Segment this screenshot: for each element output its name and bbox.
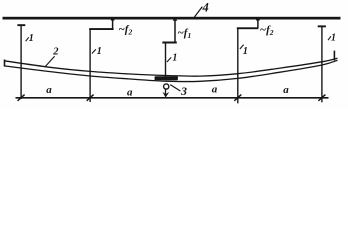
sag dimension tick f1 (center) [173, 19, 177, 42]
hanger 1 (left, T-clamp) [17, 24, 25, 99]
leader to label 2 [45, 56, 54, 66]
stem below ring [165, 89, 167, 96]
hanger 1 (right bracket) [237, 27, 258, 103]
weight clamp bar at midspan [155, 76, 178, 80]
dimension slash at x=238 [234, 95, 241, 101]
leader to label 1 (center) [167, 57, 171, 62]
wire 2 upper line (sagging messenger wire) [4, 58, 337, 76]
leader to label 4 [194, 7, 202, 18]
leader to label 1 (right bracket) [240, 45, 244, 49]
crossbeam 4 (rigid support beam) [3, 17, 341, 20]
ring 3 (weight eye) [164, 84, 169, 89]
svg-text:1: 1 [172, 53, 177, 64]
svg-text:a: a [212, 84, 218, 96]
svg-text:3: 3 [180, 84, 187, 98]
svg-text:a: a [127, 87, 133, 99]
wire end tick (left) [4, 60, 6, 67]
dimension slash at x=21 [18, 95, 25, 101]
hanger 1 (right, T-clamp) [318, 25, 326, 102]
leader to label 3 [170, 85, 180, 91]
dimension slash at x=322 [318, 95, 325, 101]
svg-text:a: a [46, 84, 52, 96]
dimension slash at x=90 [87, 95, 94, 101]
dimension line (bottom) [16, 97, 329, 99]
leader to label 1 (left bracket) [92, 49, 96, 53]
svg-text:1: 1 [331, 32, 336, 43]
leader to label 1 (right T) [328, 36, 331, 40]
arrowhead down at dimension line [162, 92, 169, 98]
sag dimension tick f2 left [111, 19, 115, 29]
svg-text:1: 1 [97, 46, 102, 57]
svg-text:1: 1 [243, 46, 248, 57]
svg-text:2: 2 [52, 47, 59, 58]
wire end tick (right) [333, 51, 335, 61]
wire 2 lower line (sagging contact wire) [4, 60, 337, 81]
svg-text:1: 1 [29, 33, 34, 44]
svg-text:a: a [283, 84, 289, 96]
leader to label 1 (left T) [26, 37, 29, 41]
svg-text:4: 4 [202, 1, 209, 15]
hanger 1 (left bracket) [89, 28, 113, 102]
hanger 1 (center bracket) [162, 42, 177, 78]
sag dimension tick f2 right [256, 19, 260, 28]
